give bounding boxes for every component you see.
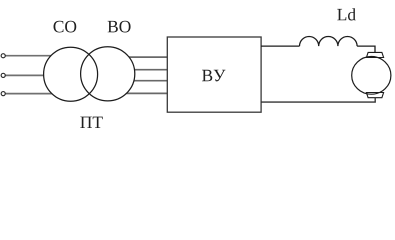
wire input phase A	[5, 55, 56, 57]
terminal input 2	[1, 73, 5, 77]
transformer PT secondary winding VO	[81, 47, 135, 101]
label CO	[54, 21, 77, 33]
wire VU output positive	[261, 45, 300, 47]
wire secondary 3	[118, 80, 167, 82]
wire input phase C	[5, 93, 56, 95]
wire inductor to motor	[357, 46, 375, 52]
terminal input 1	[1, 54, 5, 58]
wire motor return	[261, 98, 375, 102]
inductor Ld	[300, 36, 358, 46]
motor armature M	[352, 57, 391, 95]
transformer PT primary winding CO	[44, 47, 98, 101]
label VU	[202, 70, 225, 82]
transformer PT winding fill	[44, 47, 135, 101]
brush bottom	[366, 93, 383, 98]
wire input phase B	[5, 74, 48, 76]
label Ld	[337, 8, 356, 20]
brush top	[366, 52, 383, 57]
wire secondary 1	[115, 56, 167, 58]
label VO	[108, 21, 131, 33]
terminal input 3	[1, 92, 5, 96]
wire secondary 2	[118, 69, 167, 71]
rectifier unit VU box	[167, 37, 261, 112]
label PT	[80, 117, 102, 128]
wire secondary 4	[115, 92, 167, 94]
